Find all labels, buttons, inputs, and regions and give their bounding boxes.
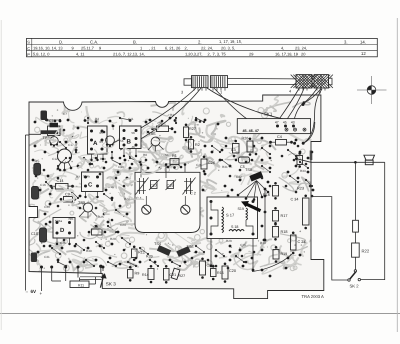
svg-text:R17: R17: [281, 214, 288, 218]
svg-text:R28: R28: [110, 237, 116, 241]
svg-text:SK 2: SK 2: [350, 284, 360, 289]
capacitor C22: [200, 261, 206, 275]
svg-text:45: 45: [283, 121, 287, 125]
capacitor C6: [157, 126, 169, 132]
transistor TS1: [106, 136, 115, 145]
svg-text:C16: C16: [40, 183, 46, 187]
pcb board face: [29, 95, 324, 299]
junction pad top right: [302, 103, 305, 106]
gang wire left: [140, 172, 142, 177]
svg-text:S04a: S04a: [55, 219, 62, 223]
svg-text:C10: C10: [31, 232, 38, 236]
trim screw left: [142, 205, 151, 214]
svg-text:−: −: [26, 290, 29, 295]
copper trace texture: [14, 96, 334, 277]
svg-text:TRA 2003 A: TRA 2003 A: [302, 294, 325, 299]
svg-text:P: P: [27, 52, 30, 57]
R11 rails: [80, 276, 102, 278]
table label column divider: [31, 38, 33, 56]
wire node column right of pointer: [264, 189, 266, 240]
transistor TS6: [176, 246, 190, 257]
coil S19: [246, 208, 248, 220]
wire cross swoop to SK1 right: [207, 88, 294, 121]
trim screw right: [181, 205, 190, 214]
connector block 2 (hatched): [211, 76, 228, 88]
svg-text:16, 17,18, 19: 16, 17,18, 19: [275, 52, 298, 57]
svg-text:R30: R30: [86, 249, 92, 253]
svg-text:R33: R33: [300, 169, 306, 173]
capacitor C30 blob: [31, 253, 37, 263]
pcb board outline: [29, 95, 324, 299]
extra solder pads: [54, 120, 57, 123]
svg-text:05: 05: [100, 131, 104, 135]
svg-text:R31: R31: [222, 165, 228, 169]
SK3 drop wires: [102, 267, 104, 271]
resistor R26: [247, 141, 253, 152]
capacitor C5: [239, 157, 250, 163]
svg-text:C18: C18: [118, 165, 124, 169]
svg-text:2,: 2,: [185, 46, 188, 51]
svg-text:R11: R11: [78, 283, 84, 287]
edge pad block: [310, 151, 313, 161]
wire to speaker feed: [304, 89, 322, 143]
battery wire +: [41, 267, 43, 291]
transistor TS5: [151, 137, 160, 146]
capacitor C10: [40, 228, 47, 242]
page bottom edge line: [0, 313, 400, 315]
ferrite pointer bar: [247, 204, 261, 211]
svg-text:C24: C24: [120, 223, 126, 227]
svg-text:12: 12: [361, 51, 366, 56]
IF transformer D: [53, 218, 75, 239]
wire speaker right return: [361, 162, 385, 279]
capacitor C9: [64, 197, 73, 203]
potentiometer R11: [70, 281, 89, 288]
battery wire left outside: [24, 135, 26, 291]
loudspeaker LS cone: [364, 155, 375, 160]
capacitor C8: [92, 229, 103, 235]
loudspeaker LS body: [365, 160, 373, 165]
svg-text:29: 29: [249, 52, 253, 57]
connector tab left: [184, 79, 192, 85]
gang wire drop left: [145, 196, 147, 205]
resistor R21: [273, 186, 279, 197]
wire C23 curve down: [252, 253, 293, 272]
switch SK2 contacts: [354, 270, 356, 272]
svg-text:3.: 3.: [344, 39, 348, 44]
resistor R22: [352, 243, 360, 257]
svg-text:R14: R14: [142, 273, 149, 277]
registration mark: [367, 86, 376, 95]
pointer arrowhead: [241, 201, 249, 207]
gang wire drop right: [184, 196, 186, 205]
svg-text:R29: R29: [226, 239, 232, 243]
capacitor C20: [222, 266, 228, 279]
wire S17 box left drop: [210, 239, 212, 267]
svg-text:C: C: [88, 182, 93, 189]
trimmer C28: [167, 181, 174, 189]
svg-text:B.: B.: [133, 39, 137, 44]
svg-text:47: 47: [275, 121, 279, 125]
small comp right mid: [297, 156, 303, 165]
svg-text:2.: 2.: [198, 39, 202, 44]
svg-text:D.: D.: [59, 39, 63, 44]
svg-text:C20: C20: [229, 269, 236, 273]
svg-text:1: 1: [140, 46, 142, 51]
svg-text:R34: R34: [260, 241, 266, 245]
svg-text:20, 3, 5,: 20, 3, 5,: [221, 46, 235, 51]
capacitor C14: [56, 184, 69, 190]
resistor R12: [132, 249, 138, 258]
svg-text:S19: S19: [238, 207, 244, 211]
svg-text:C32: C32: [236, 175, 242, 179]
svg-text:R20: R20: [146, 255, 153, 259]
resistor R27: [184, 127, 189, 138]
svg-text:19,16, 10, 14, 13: 19,16, 10, 14, 13: [33, 46, 63, 51]
svg-text:C 2: C 2: [190, 192, 196, 196]
wire harness left swoop 2: [120, 88, 201, 150]
svg-text:TS3: TS3: [78, 201, 85, 205]
wire board to speaker rail: [297, 159, 385, 163]
svg-text:22, 24,: 22, 24,: [201, 46, 213, 51]
svg-text:D: D: [60, 227, 65, 234]
component R1: [170, 159, 179, 165]
svg-text:R18: R18: [281, 230, 288, 234]
svg-text:2,: 2,: [208, 52, 211, 57]
svg-text:3: 3: [181, 90, 183, 95]
svg-text:, 21: , 21: [149, 46, 156, 51]
svg-text:R7: R7: [76, 175, 80, 179]
svg-text:SK 3: SK 3: [106, 282, 116, 287]
connector pin ticks: [193, 88, 195, 91]
C2 arrow: [183, 178, 196, 195]
transistor TS8: [249, 171, 263, 181]
wire speaker left down: [354, 162, 356, 220]
svg-text:C31: C31: [44, 255, 50, 259]
antenna wire into board: [29, 133, 41, 135]
component top-left corner blob: [41, 111, 48, 121]
S19 wires: [246, 220, 253, 234]
connector block 1 (hatched): [192, 76, 209, 88]
tuning gang top stubs: [140, 165, 142, 172]
TS8 fan wires: [238, 181, 257, 196]
svg-text:9: 9: [72, 46, 74, 51]
svg-text:TS4: TS4: [154, 242, 161, 246]
central texture boost: [46, 125, 167, 232]
svg-text:C27: C27: [150, 184, 157, 188]
wire R22 to SK2: [354, 257, 356, 270]
svg-text:23, 24,: 23, 24,: [295, 46, 307, 51]
svg-text:TS6: TS6: [187, 245, 194, 249]
svg-text:R4: R4: [170, 113, 174, 117]
svg-text:9: 9: [99, 46, 101, 51]
page left edge line: [0, 20, 2, 330]
resistor R15: [211, 269, 217, 277]
svg-text:C14: C14: [57, 179, 64, 183]
svg-text:R8: R8: [143, 153, 147, 157]
table row line 2: [27, 50, 378, 52]
svg-text:C26: C26: [208, 161, 215, 165]
svg-text:A: A: [93, 140, 98, 147]
connector tab right: [329, 78, 333, 85]
SK1 right exit wire: [304, 122, 315, 143]
svg-text:43: 43: [291, 121, 295, 125]
wire block4 down to board corner: [302, 89, 321, 105]
C1 arrow: [136, 178, 149, 195]
svg-text:R27: R27: [189, 127, 196, 131]
connector block 4 (crosshatched): [314, 75, 329, 88]
switch SK2 lever: [350, 272, 356, 280]
switch SK3 lever: [99, 265, 102, 268]
svg-text:R3: R3: [95, 117, 99, 121]
IF transformer A: [88, 126, 108, 154]
connector block 3 (crosshatched): [296, 75, 312, 88]
trimmer C15 body: [48, 126, 61, 136]
svg-text:21,6, 7, 12,13, 14,: 21,6, 7, 12,13, 14,: [113, 52, 145, 57]
svg-text:S: S: [27, 40, 30, 45]
coil S17: [222, 207, 224, 233]
svg-text:R15: R15: [217, 271, 224, 275]
svg-text:R26: R26: [242, 137, 249, 141]
svg-text:C19: C19: [167, 184, 174, 188]
svg-text:TS8: TS8: [245, 168, 252, 172]
capacitor C3: [233, 144, 240, 154]
parts table frame: [27, 38, 378, 56]
trimmer C27: [151, 181, 158, 189]
wire net segments: [46, 119, 60, 121]
wire S17 box right drop: [252, 239, 254, 271]
svg-text:C12: C12: [52, 157, 58, 161]
svg-text:C29: C29: [196, 163, 202, 167]
svg-text:R5: R5: [35, 159, 40, 163]
transformer lead stubs: [123, 149, 125, 157]
svg-text:7, 3, 75: 7, 3, 75: [213, 52, 227, 57]
table row line 1: [27, 44, 378, 46]
wire block4 to SK1 pin c: [294, 89, 317, 122]
transistor TS3: [83, 203, 92, 212]
svg-text:4,: 4,: [281, 46, 284, 51]
junction dot speaker rail: [354, 161, 357, 164]
svg-text:04: 04: [100, 140, 104, 144]
svg-text:S04b: S04b: [83, 175, 90, 179]
coil box frame: [207, 197, 258, 239]
transistor TS1 large: [58, 149, 72, 163]
svg-text:C33: C33: [44, 205, 50, 209]
transistor TS2: [50, 137, 58, 145]
svg-text:C: C: [27, 46, 30, 51]
svg-text:C4: C4: [277, 135, 282, 139]
page right edge line: [396, 18, 398, 332]
svg-text:C25: C25: [60, 241, 66, 245]
svg-text:R27: R27: [179, 274, 186, 278]
svg-text:6V: 6V: [31, 289, 38, 294]
variable capacitor C1 plates: [139, 178, 141, 194]
svg-text:4, 11: 4, 11: [76, 52, 84, 57]
IF transformer B: [120, 126, 142, 149]
coil box corner pads: [210, 200, 213, 203]
svg-text:1, 17, 19, 15,: 1, 17, 19, 15,: [219, 39, 242, 44]
svg-text:1,20,3,27,: 1,20,3,27,: [185, 52, 203, 57]
svg-text:C7: C7: [63, 112, 67, 116]
svg-text:R25: R25: [98, 215, 104, 219]
SK1 pins top row: [276, 125, 279, 128]
wire harness left swoop 1: [113, 88, 196, 143]
svg-text:+: +: [40, 291, 43, 296]
battery wire 2: [51, 267, 53, 281]
wire between elements: [354, 232, 356, 243]
resistor R18: [273, 227, 279, 238]
svg-text:C 23: C 23: [298, 240, 306, 244]
resistor R5: [34, 164, 41, 176]
svg-text:S 18: S 18: [231, 225, 238, 229]
svg-text:5,8, 12, 0: 5,8, 12, 0: [33, 52, 50, 57]
svg-text:25,11,7: 25,11,7: [81, 46, 94, 51]
svg-text:C3: C3: [231, 148, 236, 152]
variable capacitor C2 plates: [186, 178, 188, 194]
capacitor C34: [303, 198, 310, 225]
svg-text:46: 46: [132, 145, 136, 149]
switch SK1 body: [237, 119, 310, 134]
capacitor C4: [276, 140, 287, 146]
svg-text:C35: C35: [240, 243, 246, 247]
svg-text:R2: R2: [195, 143, 200, 147]
svg-text:56: 56: [132, 131, 136, 135]
capacitor C13: [32, 187, 39, 200]
resistor R14: [148, 269, 154, 280]
svg-text:R23: R23: [297, 187, 304, 191]
svg-text:TS5: TS5: [149, 132, 156, 136]
gang centre wire: [165, 172, 167, 178]
resistor R17: [273, 211, 279, 222]
svg-text:SK1: SK1: [264, 112, 273, 117]
series element above R22: [353, 220, 359, 232]
IF transformer C: [82, 172, 104, 192]
svg-text:R9: R9: [135, 272, 140, 276]
svg-text:R1: R1: [172, 154, 177, 158]
R11 feed wires: [65, 267, 67, 281]
svg-text:45. 46. 47: 45. 46. 47: [243, 129, 259, 133]
resistor R17b: [171, 268, 180, 279]
solder pads: [46, 119, 49, 122]
capacitor C21: [164, 269, 170, 281]
svg-text:C.A.: C.A.: [90, 39, 98, 44]
svg-text:R6: R6: [69, 217, 74, 221]
wire block3 to SK1 pin b: [286, 89, 304, 122]
transistor TS4: [157, 245, 171, 256]
wire connector2 to SK1: [214, 88, 247, 119]
svg-text:C11: C11: [128, 117, 134, 121]
svg-text:C9: C9: [65, 193, 70, 197]
svg-text:R22: R22: [362, 249, 370, 254]
svg-text:56: 56: [120, 139, 124, 143]
cable bar between connectors: [228, 77, 297, 80]
capacitor C26: [201, 159, 207, 169]
svg-text:C 34: C 34: [291, 198, 299, 202]
svg-text:S 17: S 17: [226, 213, 235, 218]
antenna bar: [41, 130, 59, 134]
resistor R9: [128, 270, 134, 279]
resistor R19: [273, 250, 279, 260]
SK1 pins bottom row: [285, 128, 288, 131]
wire board edge to SK2: [311, 197, 348, 280]
wire block3 to SK1 pin a: [278, 89, 299, 122]
S17 tap wire: [211, 202, 218, 235]
capacitor C23: [291, 235, 297, 250]
svg-text:6, 21, 26: 6, 21, 26: [165, 46, 181, 51]
svg-text:14.: 14.: [360, 39, 366, 44]
svg-text:R19: R19: [281, 252, 288, 256]
coil S18: [229, 230, 244, 232]
tuning capacitor unit frame: [135, 172, 200, 232]
resistor R2: [189, 140, 194, 150]
